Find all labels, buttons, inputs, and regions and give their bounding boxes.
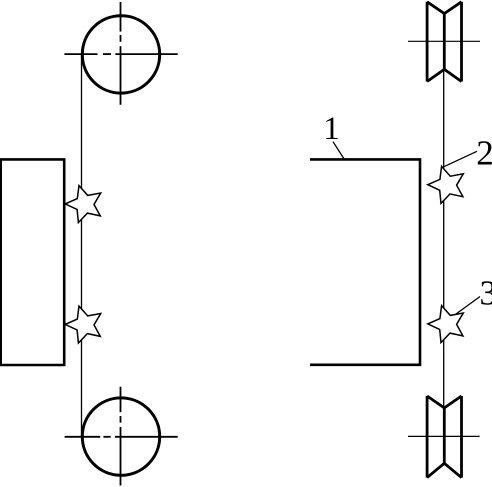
top-right pulley (groove side view) [427, 2, 461, 82]
upper-left star (weld point symbol) [65, 186, 101, 223]
lower-right star (weld point symbol, part 3) [428, 306, 464, 343]
svg-text:2: 2 [476, 133, 492, 172]
top-right pulley horizontal center line [408, 40, 480, 42]
svg-text:1: 1 [323, 111, 340, 147]
right block 1 (hoisted object, right figure, open left side) [310, 159, 420, 364]
top-left pulley vertical center line [120, 2, 122, 105]
leader line for label 1 [333, 142, 344, 159]
left block (hoisted object, left figure) [1, 159, 64, 365]
leader line for label 3 [456, 297, 480, 315]
upper-right star (weld point symbol, part 2) [428, 166, 464, 203]
leader line for label 2 [444, 151, 477, 167]
bottom-right pulley (groove side view) [427, 396, 461, 478]
left rope (wire from top pulley to bottom pulley) [81, 54, 83, 436]
bottom-left pulley horizontal center line [65, 436, 178, 438]
bottom-right pulley horizontal center line [408, 435, 480, 437]
lower-left star (weld point symbol) [65, 306, 101, 343]
right rope (between the two pulley symbols) [443, 69, 445, 408]
top-left pulley horizontal center line [64, 53, 177, 55]
bottom-left pulley (circle view) [82, 398, 159, 475]
top-left pulley (circle view) [82, 16, 159, 93]
svg-text:3: 3 [480, 274, 492, 313]
bottom-left pulley vertical center line [120, 387, 122, 486]
